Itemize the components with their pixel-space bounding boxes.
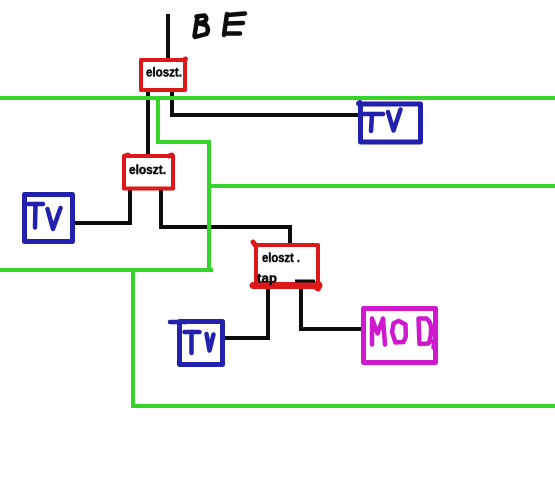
splitter box 2 (eloszt.) [124,155,173,189]
wire: splitter1 left out to splitter2 [146,90,150,156]
svg-text:eloszt.: eloszt. [146,66,182,80]
wire: tap right out to MOD [301,286,362,329]
splitter box 1 (eloszt.) [141,59,186,90]
green drop to bottom line [133,270,555,406]
green trunk line 1 (top horizontal, full width) [0,96,555,100]
wire: splitter2 right out to tap splitter [161,189,290,244]
svg-text:eloszt .: eloszt . [262,251,300,265]
tap splitter box (eloszt. / tap.) [253,242,318,289]
wire: antenna input drop [166,14,170,59]
label BE (hand-drawn) [195,14,246,38]
MOD box (modulator) [364,309,436,363]
green line (left horizontal) [0,268,213,272]
TV box 1 (top right) [359,103,421,143]
svg-text:eloszt.: eloszt. [129,163,166,177]
wire: splitter2 left out to TV2 [74,189,130,223]
TV box 3 (bottom) [170,322,223,365]
wire: splitter1 right out to TV1 [172,90,358,115]
wire: tap left out to TV3 [224,286,268,338]
svg-text:tap: tap [257,272,277,286]
green branch line (middle horizontal to right edge) [209,184,555,188]
TV box 2 (left) [25,195,73,242]
green trunk drop (staircase from line 1 down) [158,98,209,270]
